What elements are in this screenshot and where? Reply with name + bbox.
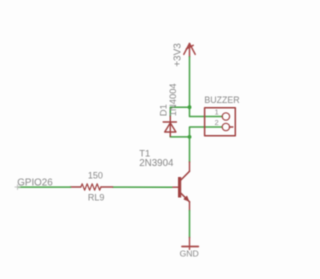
wire node A to diode cathode <box>170 107 189 116</box>
svg-text:RL9: RL9 <box>88 192 105 202</box>
svg-text:1: 1 <box>215 107 219 116</box>
ground symbol <box>182 238 198 250</box>
wire node B to buzzer pin 2 <box>190 127 223 137</box>
svg-text:2N3904: 2N3904 <box>139 158 174 169</box>
transistor T1 <box>172 162 190 211</box>
net label GPIO26 <box>15 185 20 190</box>
diode D1 <box>163 116 176 136</box>
node A junction <box>188 105 192 109</box>
svg-text:GND: GND <box>180 248 199 258</box>
svg-text:2: 2 <box>215 118 219 127</box>
svg-text:+3V3: +3V3 <box>172 43 183 67</box>
wire node B to collector <box>189 137 191 162</box>
svg-text:BUZZER: BUZZER <box>204 95 239 105</box>
resistor RL9 <box>71 184 113 190</box>
wire +3V3 to node A <box>189 57 191 107</box>
svg-text:150: 150 <box>88 170 103 180</box>
wire diode anode to node B <box>170 136 189 137</box>
svg-text:1N4004: 1N4004 <box>167 83 178 116</box>
wire emitter to GND <box>189 211 191 238</box>
node B junction <box>188 135 192 139</box>
buzzer BZ1 <box>205 108 236 136</box>
wire node A to buzzer pin 1 <box>190 107 223 116</box>
power symbol +3V3 <box>184 44 195 57</box>
svg-text:T1: T1 <box>139 148 150 159</box>
svg-text:GPIO26: GPIO26 <box>17 177 53 188</box>
wire GPIO26 to resistor <box>18 186 71 188</box>
wire base to resistor <box>113 186 172 188</box>
